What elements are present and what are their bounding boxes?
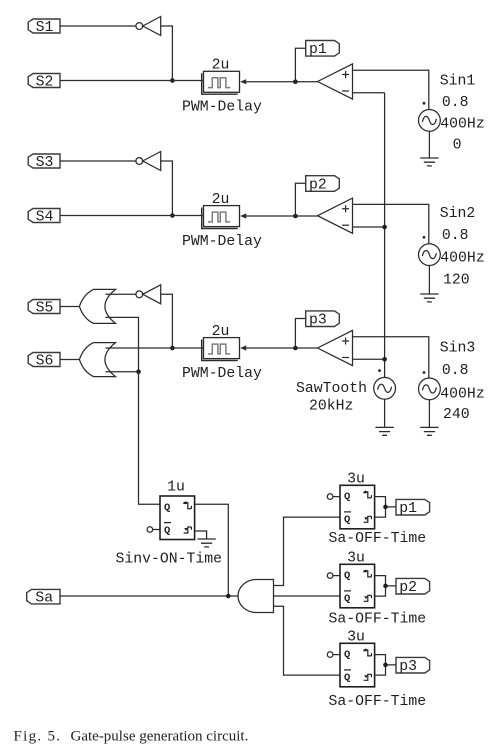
wires M2 outputs join bbox=[375, 497, 396, 517]
svg-text:240: 240 bbox=[443, 407, 470, 423]
svg-text:Sa-OFF-Time: Sa-OFF-Time bbox=[329, 612, 427, 628]
source Sin2 bbox=[419, 244, 441, 266]
ground of Sin3 bbox=[420, 427, 438, 435]
svg-text:1u: 1u bbox=[167, 480, 185, 496]
OR gate G2 bbox=[79, 343, 115, 377]
bubble input of M2 bbox=[327, 494, 340, 500]
wire G2 top input to PWM3 net bbox=[106, 347, 204, 349]
OR gate G1 bbox=[79, 289, 115, 323]
junction M2 out bbox=[383, 505, 388, 510]
polarity dot Sin3 bbox=[423, 371, 426, 374]
svg-text:S1: S1 bbox=[36, 20, 54, 36]
comparator U2 bbox=[318, 64, 353, 99]
svg-text:0.8: 0.8 bbox=[442, 95, 469, 111]
PWM-Delay block D2 bbox=[202, 206, 247, 229]
svg-text:400Hz: 400Hz bbox=[440, 387, 484, 403]
AND gate G3 bbox=[238, 580, 273, 613]
tag S6 bbox=[28, 353, 60, 370]
junction Sa bbox=[226, 594, 231, 599]
tag S3 bbox=[28, 154, 60, 171]
svg-text:Sa: Sa bbox=[35, 591, 53, 607]
junction S2/U1 bbox=[170, 78, 175, 83]
bubble input of M3 bbox=[327, 573, 340, 579]
svg-text:0.8: 0.8 bbox=[442, 363, 469, 379]
monostable M2 Sa-OFF-Time bbox=[340, 485, 375, 529]
junction sawtooth/U6 bbox=[382, 357, 387, 362]
svg-text:PWM-Delay: PWM-Delay bbox=[182, 100, 262, 116]
svg-text:Sin2: Sin2 bbox=[440, 206, 476, 222]
wire comparator U4 output to D2 bbox=[246, 215, 318, 217]
polarity dot SawTooth bbox=[378, 369, 381, 372]
svg-text:p2: p2 bbox=[399, 580, 417, 596]
PWM-Delay block D1 bbox=[202, 71, 247, 94]
svg-text:PWM-Delay: PWM-Delay bbox=[182, 366, 262, 382]
svg-text:2u: 2u bbox=[212, 192, 230, 208]
wire U6 minus input to sawtooth net bbox=[353, 358, 385, 360]
wire Sin1 to ground bbox=[428, 131, 430, 158]
ground of Sin1 bbox=[420, 158, 438, 166]
tag p3 output bbox=[396, 657, 430, 675]
svg-text:p1: p1 bbox=[309, 42, 327, 58]
tag S2 bbox=[28, 74, 60, 91]
svg-text:Fig. 5.Gate-pulse generation c: Fig. 5.Gate-pulse generation circuit. bbox=[14, 729, 249, 745]
bubble input of M1 bbox=[147, 527, 160, 533]
tag S5 bbox=[28, 300, 60, 317]
wire U3 output down to S4 net bbox=[161, 161, 173, 216]
wire M1 Q output to node Sa bbox=[195, 504, 229, 596]
PWM-Delay block D3 bbox=[202, 338, 247, 361]
wire S3 to inverter U3 bbox=[60, 160, 136, 162]
value labels Sin2 bbox=[440, 206, 485, 289]
junction sawtooth/U4 bbox=[382, 225, 387, 230]
inverter U5 bbox=[136, 285, 161, 304]
tag p2 output bbox=[396, 578, 430, 596]
svg-text:Sin3: Sin3 bbox=[440, 341, 476, 357]
tag p3 bbox=[306, 311, 340, 329]
sawtooth net vertical wire bbox=[384, 93, 386, 378]
ground of SawTooth bbox=[375, 427, 393, 435]
svg-text:S3: S3 bbox=[36, 155, 54, 171]
monostable M4 Sa-OFF-Time bbox=[340, 643, 375, 687]
value labels Sin1 bbox=[440, 74, 485, 154]
svg-text:S5: S5 bbox=[36, 301, 54, 317]
wire SawTooth to ground bbox=[384, 399, 386, 427]
svg-text:120: 120 bbox=[443, 272, 470, 288]
junction p2 bbox=[293, 214, 298, 219]
svg-text:0.8: 0.8 bbox=[442, 228, 469, 244]
tag p2 bbox=[306, 176, 340, 194]
wire node B down to monostable M1 bbox=[139, 372, 161, 505]
svg-text:2u: 2u bbox=[212, 58, 230, 74]
wire U4 minus input to sawtooth net bbox=[353, 226, 385, 228]
tag S4 bbox=[28, 209, 60, 226]
svg-text:Sin1: Sin1 bbox=[440, 74, 476, 90]
junction M3 out bbox=[383, 584, 388, 589]
polarity dot Sin1 bbox=[423, 102, 426, 105]
wire S5 to OR gate G1 bbox=[60, 306, 79, 308]
wire S6 to OR gate G2 bbox=[60, 359, 79, 361]
wire Sin3 to ground bbox=[428, 400, 430, 428]
svg-text:Sa-OFF-Time: Sa-OFF-Time bbox=[329, 694, 427, 710]
svg-text:p3: p3 bbox=[309, 313, 327, 329]
wire S4 net bbox=[60, 215, 204, 217]
monostable M1 Sinv-ON-Time bbox=[160, 496, 195, 540]
wire U4 plus input to Sin2 bbox=[353, 204, 429, 243]
wire comparator U6 output to D3 bbox=[246, 347, 318, 349]
wires M3 outputs join bbox=[375, 576, 396, 597]
svg-text:0: 0 bbox=[453, 138, 462, 154]
svg-text:S2: S2 bbox=[36, 75, 54, 91]
inverter U3 bbox=[136, 152, 161, 171]
inverter U1 bbox=[136, 17, 161, 36]
wire U2 plus input to Sin1 bbox=[353, 70, 429, 109]
wire G3 middle input to monostable M3 bbox=[274, 595, 341, 597]
wire U1 output down to S2 net bbox=[161, 26, 173, 81]
wire to tag p2 bbox=[295, 183, 305, 216]
wire M1 bottom pin to ground bbox=[195, 531, 207, 539]
svg-text:Sinv-ON-Time: Sinv-ON-Time bbox=[116, 551, 223, 567]
svg-text:2u: 2u bbox=[212, 324, 230, 340]
wire Sin2 to ground bbox=[428, 266, 430, 295]
junction PWM3/U5 bbox=[170, 346, 175, 351]
wire U2 minus input to sawtooth net bbox=[353, 92, 385, 94]
ground of Sin2 bbox=[420, 294, 438, 302]
svg-text:p1: p1 bbox=[399, 501, 417, 517]
wire G1 bottom input down to node B bbox=[106, 317, 139, 371]
polarity dot Sin2 bbox=[423, 236, 426, 239]
comparator U4 bbox=[318, 198, 353, 233]
svg-text:S6: S6 bbox=[36, 354, 54, 370]
tag p1 bbox=[306, 41, 340, 59]
tag p1 output bbox=[396, 499, 430, 517]
tag Sa bbox=[27, 589, 60, 606]
svg-text:3u: 3u bbox=[347, 551, 365, 567]
wire S2 net bbox=[60, 80, 204, 82]
svg-text:p2: p2 bbox=[309, 177, 327, 193]
wire Sa net bbox=[60, 595, 238, 597]
wire comparator U2 output to D1 bbox=[246, 81, 318, 83]
wire U5 output down to PWM3 net bbox=[161, 294, 173, 348]
junction p1 bbox=[293, 79, 298, 84]
wires M4 outputs join bbox=[375, 655, 396, 676]
svg-text:p3: p3 bbox=[399, 659, 417, 675]
svg-text:S4: S4 bbox=[36, 210, 54, 226]
svg-text:20kHz: 20kHz bbox=[309, 399, 353, 415]
junction M4 out bbox=[383, 663, 388, 668]
value labels Sin3 bbox=[440, 341, 485, 424]
svg-text:400Hz: 400Hz bbox=[440, 116, 484, 132]
wire G3 bottom input to monostable M4 bbox=[274, 606, 341, 675]
source Sin3 bbox=[419, 378, 441, 400]
wire S1 to inverter U1 bbox=[60, 25, 136, 27]
comparator U6 bbox=[318, 330, 353, 365]
wire G2 bottom input to node B bbox=[106, 371, 139, 373]
svg-text:PWM-Delay: PWM-Delay bbox=[182, 234, 262, 250]
svg-text:3u: 3u bbox=[347, 472, 365, 488]
bubble input of M4 bbox=[327, 652, 340, 658]
svg-text:3u: 3u bbox=[347, 630, 365, 646]
ground of M1 bbox=[197, 539, 215, 547]
source SawTooth bbox=[374, 377, 396, 399]
wire U6 plus input to Sin3 bbox=[353, 337, 429, 378]
value labels SawTooth 20kHz bbox=[296, 381, 367, 415]
junction S4/U3 bbox=[170, 213, 175, 218]
source Sin1 bbox=[419, 110, 441, 132]
tag S1 bbox=[28, 19, 60, 36]
wire G1 top input to inverter U5 bbox=[106, 293, 136, 295]
svg-text:SawTooth: SawTooth bbox=[296, 381, 367, 397]
junction node B bbox=[136, 369, 141, 374]
monostable M3 Sa-OFF-Time bbox=[340, 564, 375, 608]
wire to tag p3 bbox=[295, 319, 305, 349]
wire G3 top input to monostable M2 bbox=[274, 517, 341, 585]
svg-text:400Hz: 400Hz bbox=[440, 250, 484, 266]
junction p3 bbox=[293, 346, 298, 351]
wire to tag p1 bbox=[295, 48, 305, 81]
svg-text:Sa-OFF-Time: Sa-OFF-Time bbox=[329, 531, 427, 547]
